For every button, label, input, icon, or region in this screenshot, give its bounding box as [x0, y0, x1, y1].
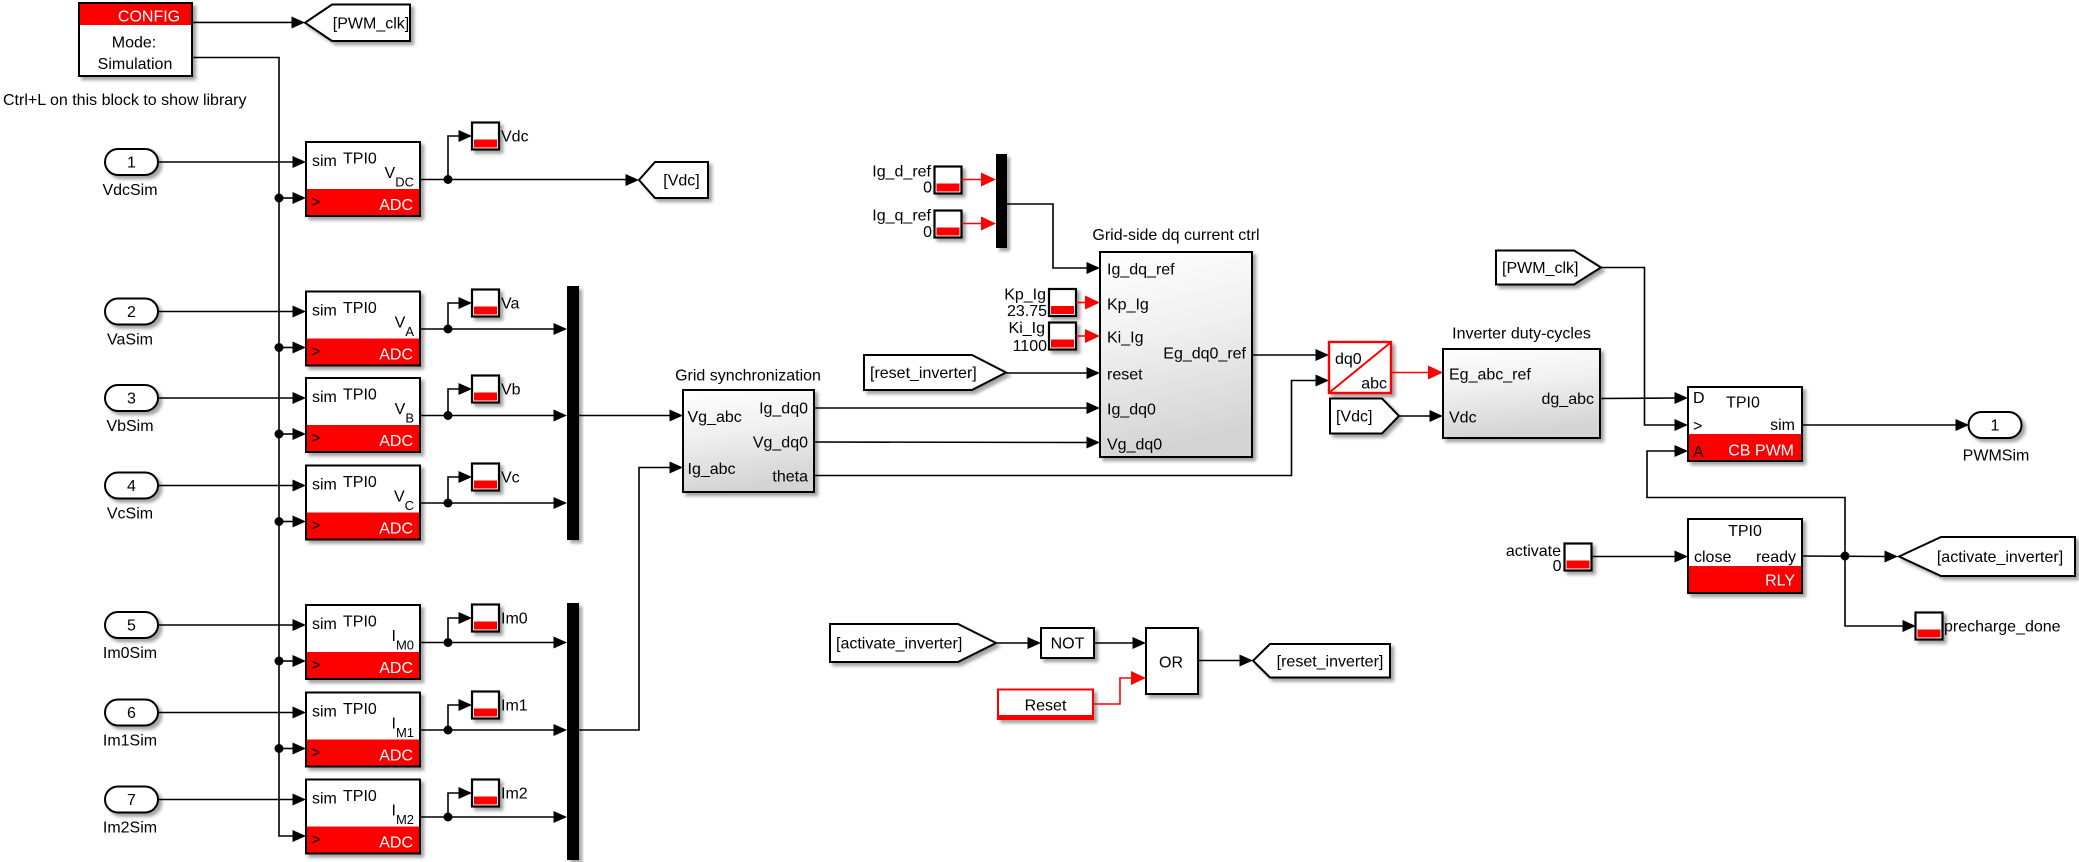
- svg-text:Vc: Vc: [501, 470, 520, 487]
- svg-text:Ki_Ig: Ki_Ig: [1107, 330, 1143, 347]
- display icon Im0: [472, 605, 499, 632]
- wire activate feedback to PWM A input: [1647, 445, 1845, 556]
- wire port 1 to ADC sim input: [158, 156, 306, 168]
- constant Kp_Ig = 23.75: [1004, 287, 1047, 321]
- goto tag [Vdc]: [639, 162, 708, 198]
- input port 3 VbSim: [105, 385, 158, 411]
- svg-text:TPI0: TPI0: [343, 701, 377, 718]
- svg-text:0: 0: [923, 224, 932, 241]
- wire inverter dg_abc to PWM D input: [1600, 392, 1688, 404]
- block ADC TPI0 IM2: [306, 780, 420, 854]
- wire CONFIG to [PWM_clk] goto: [192, 17, 305, 29]
- from tag [Vdc]: [1330, 399, 1399, 434]
- svg-text:Eg_dq0_ref: Eg_dq0_ref: [1163, 346, 1246, 363]
- svg-text:Im1Sim: Im1Sim: [103, 733, 157, 750]
- wire port 3 to ADC sim input: [158, 392, 306, 404]
- svg-text:Grid-side dq current ctrl: Grid-side dq current ctrl: [1092, 227, 1259, 244]
- svg-text:23.75: 23.75: [1007, 303, 1047, 320]
- wire ADC VA output: [420, 297, 567, 335]
- svg-text:[reset_inverter]: [reset_inverter]: [870, 365, 977, 382]
- svg-text:ADC: ADC: [379, 521, 413, 538]
- wire port 6 to ADC sim input: [158, 707, 306, 719]
- display icon Im2: [472, 780, 499, 807]
- svg-text:Vg_dq0: Vg_dq0: [1107, 437, 1162, 454]
- svg-text:TPI0: TPI0: [343, 300, 377, 317]
- svg-text:Vdc: Vdc: [1449, 410, 1477, 427]
- svg-text:NOT: NOT: [1051, 636, 1085, 653]
- block Reset button: [997, 689, 1094, 721]
- svg-text:[PWM_clk]: [PWM_clk]: [1502, 260, 1578, 277]
- wire Ig_q_ref to mux: [962, 217, 997, 231]
- block CONFIG (Mode: Simulation): [79, 3, 192, 76]
- wire trunk junction to ADC 3 clock input: [275, 428, 307, 440]
- svg-text:2: 2: [127, 304, 136, 321]
- svg-text:Vg_abc: Vg_abc: [688, 409, 742, 426]
- wire trunk junction to ADC 5 clock input: [275, 655, 307, 667]
- input port 7 Im2Sim: [105, 787, 158, 813]
- wire port 2 to ADC sim input: [158, 306, 306, 318]
- svg-text:Kp_Ig: Kp_Ig: [1107, 297, 1149, 314]
- svg-text:TPI0: TPI0: [343, 387, 377, 404]
- wire OR to [reset_inverter] goto: [1198, 655, 1253, 667]
- svg-text:1100: 1100: [1013, 338, 1048, 355]
- block ADC TPI0 VDC: [306, 142, 420, 216]
- wire Ki_Ig to controller: [1076, 329, 1100, 343]
- svg-text:TPI0: TPI0: [343, 151, 377, 168]
- wire ADC VDC output: [420, 130, 639, 186]
- wire [activate_inverter] to NOT: [996, 637, 1041, 649]
- wire ADC IM0 output: [420, 612, 567, 649]
- output port 1 PWMSim: [1969, 412, 2022, 438]
- svg-text:Vdc: Vdc: [501, 129, 529, 146]
- svg-text:Mode:: Mode:: [112, 35, 156, 52]
- svg-text:Simulation: Simulation: [98, 56, 173, 73]
- svg-text:Ki_Ig: Ki_Ig: [1009, 320, 1045, 337]
- svg-text:ready: ready: [1756, 549, 1796, 566]
- from tag [PWM_clk]: [1496, 251, 1601, 285]
- block TPI0 CB PWM: [1688, 387, 1802, 461]
- input port 5 Im0Sim: [105, 612, 158, 638]
- svg-text:ADC: ADC: [379, 433, 413, 450]
- block Grid synchronization: [675, 368, 821, 493]
- input port 6 Im1Sim: [105, 700, 158, 726]
- svg-text:VaSim: VaSim: [107, 332, 153, 349]
- svg-text:ADC: ADC: [379, 347, 413, 364]
- block ADC TPI0 VA: [306, 292, 420, 366]
- wire [PWM_clk] to PWM clock input: [1601, 268, 1688, 432]
- svg-text:precharge_done: precharge_done: [1944, 619, 2061, 636]
- svg-text:Im0: Im0: [501, 611, 528, 628]
- svg-text:0: 0: [923, 180, 932, 197]
- svg-text:sim: sim: [312, 389, 337, 406]
- svg-text:sim: sim: [312, 616, 337, 633]
- svg-text:Im1: Im1: [501, 698, 528, 715]
- wire controller Eg_dq0_ref to dq0-abc transform: [1252, 349, 1329, 361]
- display icon Vb: [472, 376, 499, 403]
- svg-text:Ig_q_ref: Ig_q_ref: [872, 208, 931, 225]
- svg-text:>: >: [311, 518, 320, 535]
- wire trunk junction to ADC 4 clock input: [275, 516, 307, 528]
- block TPI0 RLY: [1688, 519, 1802, 593]
- svg-text:TPI0: TPI0: [343, 788, 377, 805]
- svg-text:sim: sim: [312, 477, 337, 494]
- svg-text:Ig_abc: Ig_abc: [688, 461, 736, 478]
- svg-text:sim: sim: [312, 791, 337, 808]
- block NOT logic: [1041, 628, 1094, 658]
- goto tag [activate_inverter]: [1899, 537, 2075, 576]
- wire Kp_Ig to controller: [1076, 296, 1100, 310]
- svg-text:>: >: [311, 344, 320, 361]
- wire ready to precharge_done display: [1845, 556, 1916, 632]
- wire ADC IM1 output: [420, 699, 567, 736]
- wire trunk junction to ADC 6 clock input: [275, 743, 307, 755]
- svg-text:>: >: [311, 745, 320, 762]
- wire RLY ready to [activate_inverter] goto: [1802, 551, 1898, 563]
- wire ADC IM2 output: [420, 787, 567, 823]
- mux Ig_dq_ref: [996, 154, 1007, 248]
- svg-text:PWMSim: PWMSim: [1963, 448, 2030, 465]
- svg-text:[Vdc]: [Vdc]: [1336, 409, 1372, 426]
- block dq0-abc transform: [1329, 342, 1391, 393]
- svg-text:Ig_d_ref: Ig_d_ref: [872, 164, 931, 181]
- svg-text:ADC: ADC: [379, 197, 413, 214]
- svg-text:Im0Sim: Im0Sim: [103, 645, 157, 662]
- wire dq0-abc to inverter Eg_abc_ref: [1391, 366, 1443, 380]
- wire [reset_inverter] to controller reset: [1006, 367, 1100, 379]
- wire Grid sync theta to dq0-abc transform: [814, 375, 1329, 476]
- svg-text:[PWM_clk]: [PWM_clk]: [333, 15, 409, 32]
- input port 2 VaSim: [105, 299, 158, 325]
- svg-text:Grid synchronization: Grid synchronization: [675, 368, 821, 385]
- svg-text:Eg_abc_ref: Eg_abc_ref: [1449, 367, 1531, 384]
- block ADC TPI0 VB: [306, 378, 420, 452]
- block ADC TPI0 IM0: [306, 605, 420, 679]
- svg-text:dg_abc: dg_abc: [1542, 391, 1595, 408]
- svg-text:1: 1: [127, 155, 136, 172]
- wire Ig_d_ref to mux: [962, 173, 997, 187]
- wire ADC VB output: [420, 383, 567, 422]
- svg-text:[Vdc]: [Vdc]: [663, 173, 699, 190]
- svg-text:sim: sim: [312, 153, 337, 170]
- svg-text:>: >: [1693, 418, 1702, 435]
- svg-text:6: 6: [127, 705, 136, 722]
- constant Ig_q_ref = 0: [872, 208, 932, 242]
- wire trunk junction to ADC 2 clock input: [275, 342, 307, 354]
- svg-text:abc: abc: [1361, 376, 1387, 393]
- display icon Vc: [472, 464, 499, 491]
- svg-text:VcSim: VcSim: [107, 506, 153, 523]
- display icon Va: [472, 290, 499, 317]
- wire mux to Ig_dq_ref input: [1007, 204, 1100, 274]
- wire trunk junction to ADC 1 clock input: [275, 192, 307, 204]
- block OR logic: [1146, 628, 1198, 694]
- input port 1 VdcSim: [105, 149, 158, 175]
- svg-text:dq0: dq0: [1335, 351, 1362, 368]
- input port 4 VcSim: [105, 473, 158, 499]
- wire PWM sim output to outport: [1802, 419, 1969, 431]
- svg-text:Im2: Im2: [501, 786, 528, 803]
- svg-text:Ig_dq0: Ig_dq0: [759, 401, 808, 418]
- wire ADC VC output: [420, 471, 567, 509]
- svg-text:Ctrl+L on this block to show l: Ctrl+L on this block to show library: [3, 92, 247, 109]
- from tag [activate_inverter]: [830, 624, 996, 662]
- svg-text:sim: sim: [1770, 417, 1795, 434]
- svg-text:Ig_dq0: Ig_dq0: [1107, 402, 1156, 419]
- svg-text:Reset: Reset: [1025, 698, 1067, 715]
- block ADC TPI0 VC: [306, 466, 420, 540]
- wire activate to RLY close: [1592, 551, 1688, 563]
- svg-text:ADC: ADC: [379, 835, 413, 852]
- wire mux Vabc to Grid synchronization Vg_abc: [579, 410, 683, 422]
- svg-text:[activate_inverter]: [activate_inverter]: [1937, 549, 2063, 566]
- svg-text:VbSim: VbSim: [106, 418, 153, 435]
- wire port 5 to ADC sim input: [158, 619, 306, 631]
- svg-text:theta: theta: [772, 469, 808, 486]
- svg-text:3: 3: [127, 391, 136, 408]
- wire [Vdc] to inverter Vdc: [1399, 410, 1443, 422]
- svg-text:VdcSim: VdcSim: [102, 182, 157, 199]
- svg-text:ADC: ADC: [379, 748, 413, 765]
- svg-text:Vb: Vb: [501, 382, 521, 399]
- svg-text:TPI0: TPI0: [343, 474, 377, 491]
- wire NOT to OR: [1094, 637, 1146, 649]
- block Grid-side dq current ctrl: [1092, 227, 1259, 457]
- svg-text:Va: Va: [501, 296, 519, 313]
- svg-text:OR: OR: [1159, 655, 1183, 672]
- wire CONFIG trunk to ADC sync inputs: [192, 58, 306, 843]
- display icon Vdc: [472, 123, 499, 150]
- svg-text:RLY: RLY: [1765, 573, 1795, 590]
- svg-text:Ig_dq_ref: Ig_dq_ref: [1107, 262, 1175, 279]
- svg-text:sim: sim: [312, 303, 337, 320]
- mux voltages Vabc: [567, 286, 579, 540]
- svg-text:CB PWM: CB PWM: [1728, 443, 1794, 460]
- svg-text:0: 0: [1553, 558, 1562, 575]
- svg-text:>: >: [311, 430, 320, 447]
- goto tag [reset_inverter]: [1253, 644, 1390, 678]
- svg-text:>: >: [311, 832, 320, 849]
- wire Grid sync Vg_dq0 to controller: [814, 437, 1100, 449]
- svg-text:[reset_inverter]: [reset_inverter]: [1277, 653, 1384, 670]
- wire Grid sync Ig_dq0 to controller: [814, 402, 1100, 414]
- constant Ki_Ig = 1100: [1009, 320, 1048, 355]
- svg-text:>: >: [311, 194, 320, 211]
- block Inverter duty-cycles: [1443, 326, 1600, 439]
- svg-text:TPI0: TPI0: [343, 614, 377, 631]
- svg-text:4: 4: [127, 478, 136, 495]
- svg-text:Inverter duty-cycles: Inverter duty-cycles: [1452, 326, 1591, 343]
- wire Reset to OR input: [1094, 671, 1146, 704]
- constant activate = 0: [1506, 543, 1562, 575]
- goto tag [PWM_clk]: [305, 5, 410, 42]
- svg-text:[activate_inverter]: [activate_inverter]: [836, 636, 962, 653]
- wire port 7 to ADC sim input: [158, 794, 306, 806]
- svg-text:reset: reset: [1107, 367, 1143, 384]
- annotation Ctrl+L hint: [3, 92, 247, 109]
- svg-text:CONFIG: CONFIG: [118, 9, 180, 26]
- display icon Im1: [472, 692, 499, 719]
- svg-text:TPI0: TPI0: [1728, 523, 1762, 540]
- constant Ig_d_ref = 0: [872, 164, 932, 197]
- svg-text:sim: sim: [312, 704, 337, 721]
- svg-text:7: 7: [127, 792, 136, 809]
- svg-text:A: A: [1693, 444, 1704, 461]
- svg-text:1: 1: [1991, 418, 2000, 435]
- wire mux Im012 to Grid synchronization Ig_abc: [579, 462, 683, 731]
- svg-text:TPI0: TPI0: [1726, 395, 1760, 412]
- from tag [reset_inverter]: [864, 355, 1006, 390]
- block ADC TPI0 IM1: [306, 693, 420, 767]
- svg-text:Vg_dq0: Vg_dq0: [753, 435, 808, 452]
- svg-text:5: 5: [127, 618, 136, 635]
- svg-text:close: close: [1694, 549, 1731, 566]
- wire port 4 to ADC sim input: [158, 480, 306, 492]
- svg-text:D: D: [1693, 390, 1705, 407]
- mux currents Im012: [567, 603, 579, 860]
- svg-text:ADC: ADC: [379, 660, 413, 677]
- svg-text:>: >: [311, 657, 320, 674]
- svg-text:Im2Sim: Im2Sim: [103, 820, 157, 837]
- display precharge_done: [1916, 613, 1943, 640]
- svg-text:Kp_Ig: Kp_Ig: [1004, 287, 1046, 304]
